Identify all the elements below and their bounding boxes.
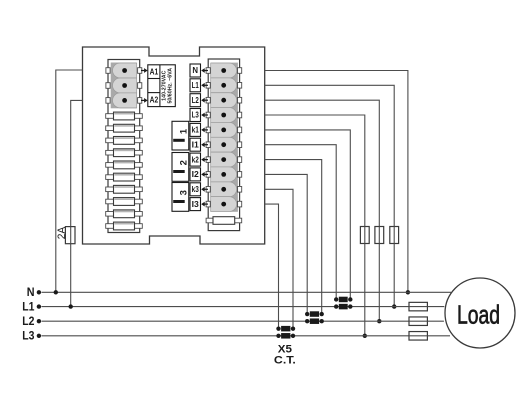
junction L1 branch [69, 304, 73, 308]
svg-text:I3: I3 [192, 200, 200, 209]
svg-text:Load: Load [457, 300, 500, 330]
current transformer CT2 [305, 311, 324, 324]
junction L1 tap [392, 304, 396, 308]
svg-text:I2: I2 [192, 170, 200, 179]
node L1 start [37, 304, 41, 308]
arrow terminal to A2 [141, 98, 148, 103]
arrow terminal to k2 [201, 157, 208, 162]
wire L3 [265, 115, 365, 336]
node L2 start [37, 319, 41, 323]
wire L1 to A2 [71, 100, 83, 306]
svg-text:140-270VAC: 140-270VAC [161, 70, 167, 100]
current transformer CT3 [276, 326, 295, 339]
fuse on L3 wire [360, 227, 369, 244]
terminal label box L1 [190, 79, 201, 92]
arrow terminal to N [201, 68, 208, 73]
svg-text:L2: L2 [22, 316, 34, 328]
junction L3 tap [363, 334, 367, 338]
line L1 [42, 306, 445, 308]
svg-text:L3: L3 [22, 331, 34, 343]
fuse on L2 wire [375, 227, 384, 244]
wire k2 [265, 160, 322, 314]
svg-text:1: 1 [178, 128, 189, 134]
terminal strip right (measuring inputs) [206, 59, 242, 231]
fuse load L3 [409, 332, 427, 341]
svg-text:L1: L1 [192, 81, 200, 90]
arrow terminal to I1 [201, 142, 208, 147]
svg-text:I1: I1 [192, 140, 200, 149]
svg-text:50/60Hz. ~6VA: 50/60Hz. ~6VA [167, 68, 173, 104]
terminal label box k3 [190, 183, 201, 196]
line L2 [42, 320, 444, 322]
arrow terminal to I3 [201, 202, 208, 207]
svg-text:A1: A1 [150, 68, 159, 77]
wire I3 [265, 204, 279, 329]
CT group label 2 [172, 153, 189, 182]
svg-text:3: 3 [178, 190, 189, 195]
wire L1 [265, 85, 395, 306]
node N start [37, 290, 41, 294]
fuse on L1 wire [390, 227, 399, 244]
node L3 start [37, 334, 41, 338]
wire k3 [265, 189, 293, 328]
terminal label box k2 [190, 153, 201, 166]
arrow terminal to L2 [201, 98, 208, 103]
svg-text:k1: k1 [192, 126, 200, 135]
terminal label box I2 [190, 168, 201, 181]
fuse load L1 [409, 302, 427, 311]
svg-text:2A: 2A [56, 226, 68, 239]
terminal label box I1 [190, 138, 201, 151]
load motor circle [445, 278, 515, 348]
power supply label block A1/A2 [148, 65, 176, 107]
wire I2 [265, 174, 308, 314]
arrow terminal to I2 [201, 172, 208, 177]
fuse 2A [56, 226, 75, 244]
svg-text:L3: L3 [192, 111, 200, 120]
wire N [265, 71, 408, 293]
terminal label box I3 [190, 198, 201, 211]
junction L2 tap [377, 319, 381, 323]
svg-text:2: 2 [178, 160, 189, 165]
svg-text:N: N [192, 66, 198, 75]
svg-text:k3: k3 [192, 185, 200, 194]
fuse load L2 [409, 317, 427, 326]
junction N branch [54, 290, 58, 294]
arrow terminal to A1 [141, 68, 148, 73]
terminal strip left (supply) [106, 60, 143, 233]
terminal label box N [190, 64, 201, 77]
meter device outline [83, 47, 265, 244]
label X5 C.T. [274, 344, 296, 367]
svg-text:L2: L2 [192, 96, 200, 105]
arrow terminal to L1 [201, 83, 208, 88]
wire k1 [265, 130, 351, 300]
terminal label box L3 [190, 109, 201, 122]
svg-text:A2: A2 [150, 96, 159, 105]
wire I1 [265, 145, 337, 300]
svg-text:k2: k2 [192, 155, 200, 164]
terminal label box L2 [190, 94, 201, 107]
line N [42, 291, 452, 293]
svg-text:L1: L1 [22, 302, 35, 314]
arrow terminal to k1 [201, 128, 208, 133]
CT group label 3 [172, 183, 189, 212]
line L3 [42, 335, 451, 337]
CT group label 1 [172, 121, 189, 150]
wire N to A1 [56, 70, 83, 292]
arrow terminal to k3 [201, 187, 208, 192]
junction N tap [406, 290, 410, 294]
svg-text:C.T.: C.T. [274, 355, 296, 367]
arrow terminal to L3 [201, 113, 208, 118]
terminal label box k1 [190, 123, 201, 136]
wire L2 [265, 100, 380, 321]
svg-text:N: N [27, 287, 35, 299]
current transformer CT1 [334, 297, 352, 310]
